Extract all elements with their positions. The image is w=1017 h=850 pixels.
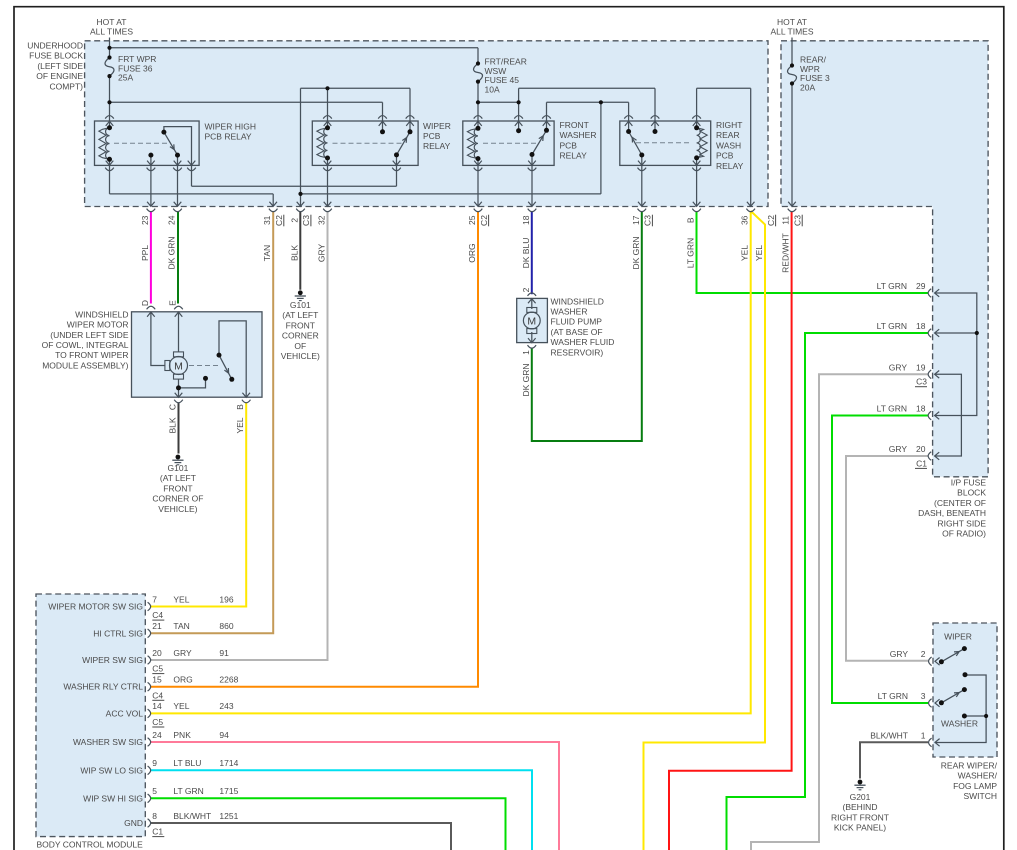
svg-text:WASHER SW SIG: WASHER SW SIG bbox=[73, 737, 143, 747]
svg-text:GND: GND bbox=[124, 818, 143, 828]
svg-text:GRY: GRY bbox=[317, 244, 327, 263]
svg-text:C5: C5 bbox=[152, 717, 163, 727]
svg-text:OF COWL, INTEGRAL: OF COWL, INTEGRAL bbox=[42, 340, 129, 350]
svg-text:WASHER/: WASHER/ bbox=[958, 771, 998, 781]
svg-text:WASHER: WASHER bbox=[551, 307, 588, 317]
svg-text:WASHER RLY CTRL: WASHER RLY CTRL bbox=[63, 682, 143, 692]
svg-text:FRONT: FRONT bbox=[560, 120, 589, 130]
svg-text:20: 20 bbox=[152, 648, 162, 658]
svg-text:B: B bbox=[235, 404, 245, 410]
svg-text:OF ENGINE: OF ENGINE bbox=[36, 71, 83, 81]
svg-text:SWITCH: SWITCH bbox=[963, 791, 997, 801]
svg-text:WIP SW HI SIG: WIP SW HI SIG bbox=[83, 793, 143, 803]
svg-text:C1: C1 bbox=[916, 458, 927, 468]
svg-text:243: 243 bbox=[219, 701, 233, 711]
svg-text:20A: 20A bbox=[800, 82, 815, 92]
svg-text:WINDSHIELD: WINDSHIELD bbox=[551, 296, 604, 306]
svg-text:21: 21 bbox=[152, 621, 162, 631]
svg-text:PPL: PPL bbox=[140, 245, 150, 261]
svg-text:1715: 1715 bbox=[219, 786, 238, 796]
svg-text:DASH, BENEATH: DASH, BENEATH bbox=[918, 508, 986, 518]
svg-text:CORNER OF: CORNER OF bbox=[152, 494, 203, 504]
svg-text:YEL: YEL bbox=[173, 701, 189, 711]
svg-text:MODULE ASSEMBLY): MODULE ASSEMBLY) bbox=[42, 360, 128, 370]
svg-text:3: 3 bbox=[921, 691, 926, 701]
svg-text:I/P FUSE: I/P FUSE bbox=[951, 478, 987, 488]
svg-text:10A: 10A bbox=[485, 84, 500, 94]
svg-text:WIPER MOTOR: WIPER MOTOR bbox=[67, 320, 129, 330]
svg-text:WASHER: WASHER bbox=[941, 719, 978, 729]
svg-text:RELAY: RELAY bbox=[716, 161, 744, 171]
svg-text:C4: C4 bbox=[152, 690, 163, 700]
svg-text:BLK: BLK bbox=[289, 245, 299, 261]
svg-text:WASHER FLUID: WASHER FLUID bbox=[551, 337, 615, 347]
svg-text:TAN: TAN bbox=[173, 621, 189, 631]
svg-text:(AT BASE OF: (AT BASE OF bbox=[551, 327, 603, 337]
svg-text:(LEFT SIDE: (LEFT SIDE bbox=[37, 61, 83, 71]
svg-text:C4: C4 bbox=[152, 610, 163, 620]
svg-text:RIGHT: RIGHT bbox=[716, 120, 742, 130]
svg-text:(BEHIND: (BEHIND bbox=[843, 802, 878, 812]
svg-text:COMPT): COMPT) bbox=[49, 81, 83, 91]
svg-text:196: 196 bbox=[219, 594, 233, 604]
svg-text:FUSE BLOCK: FUSE BLOCK bbox=[29, 51, 83, 61]
svg-text:DK GRN: DK GRN bbox=[631, 236, 641, 269]
svg-text:YEL: YEL bbox=[235, 417, 245, 433]
svg-text:B: B bbox=[686, 217, 696, 223]
svg-text:2268: 2268 bbox=[219, 675, 238, 685]
svg-text:BLK/WHT: BLK/WHT bbox=[870, 731, 908, 741]
svg-text:ACC VOL: ACC VOL bbox=[106, 708, 144, 718]
svg-text:CORNER: CORNER bbox=[282, 331, 319, 341]
svg-text:C2: C2 bbox=[274, 215, 284, 226]
svg-text:C3: C3 bbox=[916, 377, 927, 387]
svg-text:WASH: WASH bbox=[716, 140, 741, 150]
svg-text:PCB RELAY: PCB RELAY bbox=[205, 132, 252, 142]
svg-text:E: E bbox=[168, 300, 178, 306]
svg-text:(AT LEFT: (AT LEFT bbox=[282, 310, 318, 320]
svg-text:C2: C2 bbox=[479, 215, 489, 226]
svg-text:1: 1 bbox=[921, 731, 926, 741]
svg-text:C3: C3 bbox=[792, 215, 802, 226]
svg-text:15: 15 bbox=[152, 675, 162, 685]
svg-text:DK GRN: DK GRN bbox=[167, 236, 177, 269]
svg-text:5: 5 bbox=[152, 786, 157, 796]
svg-text:17: 17 bbox=[631, 215, 641, 225]
svg-text:PCB: PCB bbox=[560, 140, 578, 150]
svg-text:25: 25 bbox=[467, 215, 477, 225]
svg-text:36: 36 bbox=[740, 215, 750, 225]
svg-text:C: C bbox=[168, 404, 178, 410]
svg-text:FRONT: FRONT bbox=[286, 320, 315, 330]
svg-text:C1: C1 bbox=[152, 827, 163, 837]
svg-text:1714: 1714 bbox=[219, 758, 238, 768]
svg-text:HI CTRL SIG: HI CTRL SIG bbox=[93, 628, 143, 638]
svg-text:18: 18 bbox=[521, 215, 531, 225]
svg-text:LT GRN: LT GRN bbox=[878, 691, 908, 701]
svg-text:WIPER SW SIG: WIPER SW SIG bbox=[82, 655, 143, 665]
svg-text:ALL TIMES: ALL TIMES bbox=[90, 27, 133, 37]
svg-text:M: M bbox=[527, 315, 536, 327]
svg-text:24: 24 bbox=[152, 730, 162, 740]
svg-text:GRY: GRY bbox=[889, 363, 908, 373]
svg-text:TO FRONT WIPER: TO FRONT WIPER bbox=[55, 350, 128, 360]
svg-text:REAR: REAR bbox=[716, 130, 740, 140]
svg-text:WINDSHIELD: WINDSHIELD bbox=[75, 309, 128, 319]
svg-text:WIPER HIGH: WIPER HIGH bbox=[205, 121, 256, 131]
svg-text:18: 18 bbox=[916, 321, 926, 331]
svg-text:ALL TIMES: ALL TIMES bbox=[771, 27, 814, 37]
svg-text:860: 860 bbox=[219, 621, 233, 631]
svg-text:M: M bbox=[174, 360, 183, 372]
svg-text:32: 32 bbox=[317, 215, 327, 225]
svg-text:LT GRN: LT GRN bbox=[877, 321, 907, 331]
svg-text:(UNDER LEFT SIDE: (UNDER LEFT SIDE bbox=[50, 330, 129, 340]
svg-text:9: 9 bbox=[152, 758, 157, 768]
svg-text:OF RADIO): OF RADIO) bbox=[942, 529, 986, 539]
svg-text:7: 7 bbox=[152, 594, 157, 604]
svg-text:RELAY: RELAY bbox=[423, 141, 451, 151]
svg-text:RED/WHT: RED/WHT bbox=[781, 233, 791, 273]
svg-text:GRY: GRY bbox=[173, 648, 192, 658]
svg-text:RIGHT FRONT: RIGHT FRONT bbox=[831, 812, 889, 822]
svg-text:LT GRN: LT GRN bbox=[686, 238, 696, 268]
svg-text:UNDERHOOD: UNDERHOOD bbox=[27, 41, 83, 51]
svg-text:VEHICLE): VEHICLE) bbox=[158, 504, 197, 514]
svg-text:PCB: PCB bbox=[423, 131, 441, 141]
svg-text:91: 91 bbox=[219, 648, 229, 658]
svg-text:YEL: YEL bbox=[754, 245, 764, 261]
svg-text:C2: C2 bbox=[766, 215, 776, 226]
svg-text:C3: C3 bbox=[301, 215, 311, 226]
svg-text:RESERVOIR): RESERVOIR) bbox=[551, 347, 604, 357]
svg-text:OF: OF bbox=[294, 341, 306, 351]
svg-text:RELAY: RELAY bbox=[560, 151, 588, 161]
svg-text:(CENTER OF: (CENTER OF bbox=[934, 498, 986, 508]
svg-text:19: 19 bbox=[916, 363, 926, 373]
svg-text:YEL: YEL bbox=[740, 245, 750, 261]
svg-text:23: 23 bbox=[140, 215, 150, 225]
svg-text:14: 14 bbox=[152, 701, 162, 711]
svg-text:31: 31 bbox=[262, 215, 272, 225]
svg-text:KICK PANEL): KICK PANEL) bbox=[834, 823, 886, 833]
svg-text:LT GRN: LT GRN bbox=[173, 786, 203, 796]
svg-text:WIPER MOTOR SW SIG: WIPER MOTOR SW SIG bbox=[48, 602, 143, 612]
svg-text:FOG LAMP: FOG LAMP bbox=[953, 781, 997, 791]
svg-text:PNK: PNK bbox=[173, 730, 191, 740]
svg-text:1: 1 bbox=[521, 350, 531, 355]
svg-text:YEL: YEL bbox=[173, 594, 189, 604]
svg-text:C5: C5 bbox=[152, 664, 163, 674]
svg-text:24: 24 bbox=[167, 215, 177, 225]
svg-text:HOT AT: HOT AT bbox=[777, 17, 807, 27]
svg-text:TAN: TAN bbox=[262, 245, 272, 261]
svg-text:C3: C3 bbox=[643, 215, 653, 226]
svg-text:PCB: PCB bbox=[716, 151, 734, 161]
svg-text:G101: G101 bbox=[168, 463, 189, 473]
svg-text:ORG: ORG bbox=[467, 243, 477, 262]
svg-text:LT GRN: LT GRN bbox=[877, 404, 907, 414]
svg-text:25A: 25A bbox=[118, 73, 133, 83]
svg-text:G201: G201 bbox=[850, 792, 871, 802]
svg-text:VEHICLE): VEHICLE) bbox=[281, 351, 320, 361]
svg-text:RIGHT SIDE: RIGHT SIDE bbox=[938, 518, 987, 528]
svg-text:BLK/WHT: BLK/WHT bbox=[173, 811, 211, 821]
svg-text:20: 20 bbox=[916, 444, 926, 454]
svg-text:LT GRN: LT GRN bbox=[877, 281, 907, 291]
svg-text:GRY: GRY bbox=[890, 649, 909, 659]
svg-text:WIP SW LO SIG: WIP SW LO SIG bbox=[80, 765, 143, 775]
svg-text:94: 94 bbox=[219, 730, 229, 740]
svg-text:BLK: BLK bbox=[168, 417, 178, 433]
svg-text:LT BLU: LT BLU bbox=[173, 758, 201, 768]
svg-text:FLUID PUMP: FLUID PUMP bbox=[551, 317, 603, 327]
svg-text:18: 18 bbox=[916, 404, 926, 414]
svg-text:WIPER: WIPER bbox=[423, 121, 451, 131]
svg-text:D: D bbox=[140, 300, 150, 306]
svg-text:2: 2 bbox=[521, 287, 531, 292]
svg-text:GRY: GRY bbox=[889, 444, 908, 454]
svg-text:29: 29 bbox=[916, 281, 926, 291]
svg-text:(AT LEFT: (AT LEFT bbox=[160, 473, 196, 483]
svg-text:2: 2 bbox=[921, 649, 926, 659]
svg-text:8: 8 bbox=[152, 811, 157, 821]
svg-text:DK BLU: DK BLU bbox=[521, 238, 531, 269]
svg-text:FRONT: FRONT bbox=[163, 483, 192, 493]
svg-text:REAR WIPER/: REAR WIPER/ bbox=[941, 761, 998, 771]
svg-text:ORG: ORG bbox=[173, 675, 192, 685]
svg-text:BODY CONTROL MODULE: BODY CONTROL MODULE bbox=[37, 840, 144, 850]
svg-text:2: 2 bbox=[289, 218, 299, 223]
svg-text:G101: G101 bbox=[290, 300, 311, 310]
svg-text:WIPER: WIPER bbox=[944, 632, 972, 642]
svg-text:HOT AT: HOT AT bbox=[97, 17, 127, 27]
svg-text:WASHER: WASHER bbox=[560, 130, 597, 140]
svg-text:BLOCK: BLOCK bbox=[957, 488, 986, 498]
svg-text:11: 11 bbox=[781, 216, 791, 225]
svg-text:DK GRN: DK GRN bbox=[521, 363, 531, 396]
svg-text:1251: 1251 bbox=[219, 811, 238, 821]
